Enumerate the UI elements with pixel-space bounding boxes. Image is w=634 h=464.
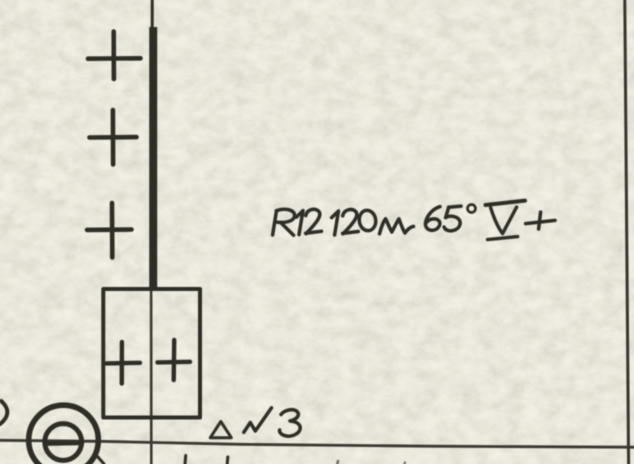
annotation letter V (491, 207, 517, 234)
survey line (thin, full width, slight slope) (0, 440, 634, 447)
thick plumb line (149, 27, 157, 289)
cut-off text mark 4 (faint) (403, 463, 406, 464)
annotation digit 1 (second) (332, 211, 339, 235)
label digit 3 (280, 410, 301, 436)
label letter N (244, 408, 272, 432)
annotation digit 5 (444, 206, 461, 231)
label triangle delta (210, 422, 231, 438)
thin wire top segment (151, 0, 154, 30)
annotation digit 2 (306, 209, 322, 233)
building outline box (103, 289, 200, 418)
annotation digit 1 (297, 211, 304, 235)
box cross left (107, 342, 141, 384)
cut-off text mark A shape (89, 456, 104, 464)
annotation overbar of V (486, 201, 526, 205)
annotation digit 2 (second) (343, 210, 359, 234)
grid cross 2 (90, 110, 137, 165)
cut-off text mark 3 (faint) (336, 461, 339, 464)
annotation digit 6 (425, 207, 440, 231)
grid cross 1 (88, 32, 141, 80)
station symbol inner circle (45, 424, 82, 461)
thin wire through building to bottom (150, 288, 153, 464)
annotation letter m (cyrillic) (380, 219, 414, 234)
annotation letter R (273, 209, 295, 235)
annotation digit 0 (358, 209, 377, 231)
box cross right (158, 340, 191, 380)
annotation degree sign (468, 205, 476, 213)
right border line (625, 0, 629, 464)
cut-off text mark 1 (184, 456, 188, 464)
annotation underline of V (488, 237, 518, 240)
grid cross 3 (87, 203, 132, 258)
station symbol theta bar (45, 441, 82, 446)
station symbol outer circle (29, 405, 99, 464)
partial arc at left edge (0, 401, 7, 424)
annotation plus sign (526, 212, 555, 229)
cut-off text mark 2 (226, 457, 230, 464)
